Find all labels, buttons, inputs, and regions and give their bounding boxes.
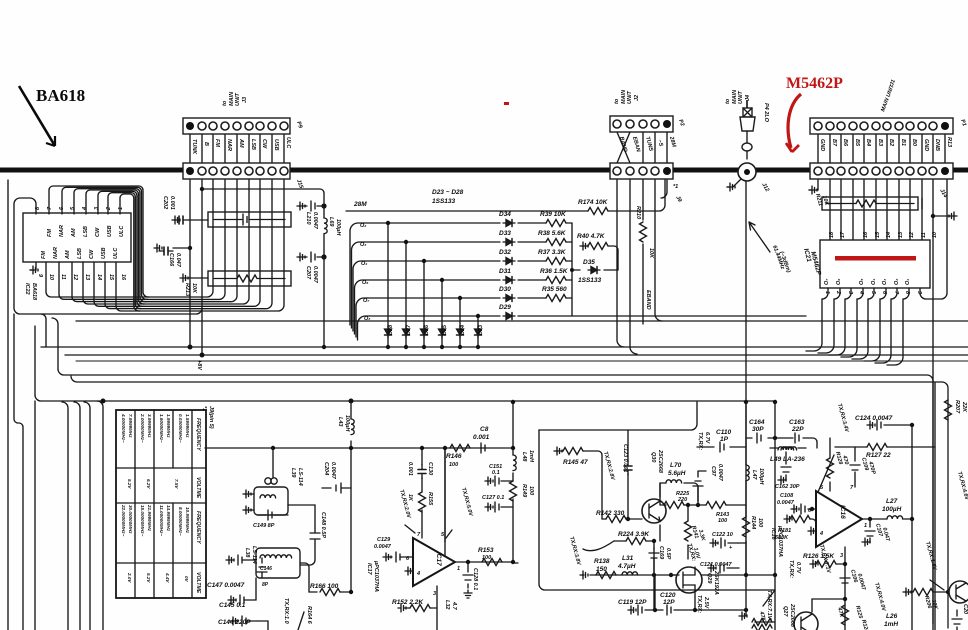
- connector P4 2LO plug: [746, 100, 748, 108]
- svg-text:FREQUENCY: FREQUENCY: [195, 511, 201, 544]
- svg-text:1: 1: [118, 207, 124, 210]
- wire pin8 left loop: [14, 180, 202, 314]
- svg-text:P4 2LO: P4 2LO: [763, 103, 769, 123]
- svg-text:R164 6: R164 6: [306, 606, 312, 625]
- svg-text:1: 1: [864, 523, 867, 529]
- svg-text:R224 3.9K: R224 3.9K: [618, 531, 650, 538]
- svg-text:0.03000MHz~: 0.03000MHz~: [178, 414, 183, 443]
- svg-text:AM: AM: [238, 138, 244, 148]
- wire BAND down: [617, 180, 624, 347]
- svg-text:L39: L39: [290, 468, 296, 478]
- svg-text:*1: *1: [673, 184, 678, 190]
- svg-text:B6: B6: [842, 139, 848, 147]
- wire row O2: [350, 223, 572, 325]
- svg-text:3: 3: [433, 591, 436, 597]
- capacitor C127 0.1: [487, 506, 513, 508]
- svg-text:10K: 10K: [648, 248, 654, 259]
- capacitor L210 0.0047: [321, 203, 326, 208]
- svg-text:B1: B1: [900, 139, 906, 146]
- filter box with resistor R214: [208, 271, 291, 286]
- svg-text:R155: R155: [427, 492, 433, 506]
- svg-text:L38: L38: [244, 548, 250, 558]
- svg-text:D28: D28: [388, 324, 394, 335]
- capacitor C20x bottom right: [956, 610, 958, 630]
- wire TUNS down: [642, 180, 644, 215]
- svg-text:0.0047: 0.0047: [374, 544, 392, 550]
- svg-text:EBAND: EBAND: [645, 290, 651, 310]
- svg-text:6.2V: 6.2V: [146, 479, 151, 489]
- svg-text:+8V: +8V: [196, 360, 202, 371]
- wire y438 line: [746, 438, 817, 448]
- svg-text:NAR: NAR: [59, 225, 65, 237]
- capacitor C119 12P: [630, 609, 655, 611]
- svg-text:22P: 22P: [791, 426, 804, 433]
- wire bottom stub pin14: [94, 262, 143, 306]
- inductor L47 100uH: [745, 447, 747, 465]
- svg-text:J2: J2: [634, 95, 640, 101]
- svg-text:2.00000MHz~: 2.00000MHz~: [140, 413, 145, 443]
- P2 pin labels: [618, 135, 677, 154]
- capacitor C149 8P: [258, 514, 288, 516]
- inductor L70 5.6uH + R225 220: [660, 483, 698, 505]
- resistor R224 3.9K: [614, 540, 626, 542]
- resistor R181 680K: [786, 518, 790, 520]
- wire TUNK column: [189, 180, 191, 348]
- inductor L43: [350, 401, 352, 592]
- resistor R144 100 vertical: [743, 517, 750, 537]
- wire pin9 to J14 loop: [920, 180, 947, 299]
- capacitor C110 1P: [697, 446, 746, 448]
- capacitor C169 0.5P: [653, 548, 655, 575]
- svg-text:B0: B0: [911, 139, 917, 146]
- wire bottom stub pin10: [46, 262, 149, 297]
- svg-text:LSB: LSB: [77, 248, 83, 259]
- svg-text:2.5V: 2.5V: [703, 596, 709, 610]
- svg-text:16: 16: [863, 231, 869, 238]
- wire down: [323, 257, 325, 347]
- svg-text:0.0047: 0.0047: [330, 462, 336, 480]
- svg-text:FM: FM: [47, 229, 53, 237]
- svg-text:L47: L47: [751, 470, 757, 480]
- wire bus net pin5: [74, 180, 237, 302]
- svg-text:VOLTME: VOLTME: [195, 477, 201, 499]
- ground pin9: [30, 262, 36, 270]
- svg-text:D33: D33: [499, 230, 511, 237]
- svg-text:8P: 8P: [262, 582, 269, 588]
- svg-text:C144 220P: C144 220P: [218, 619, 251, 626]
- wire matrix right bus: [571, 223, 573, 316]
- svg-text:Q27: Q27: [782, 606, 788, 617]
- svg-text:B3: B3: [877, 139, 883, 146]
- wire output pin1 + L27: [862, 518, 887, 520]
- svg-text:30P: 30P: [752, 426, 764, 433]
- svg-text:100µH: 100µH: [344, 415, 350, 432]
- wire feed y188 from B column: [202, 189, 324, 203]
- svg-text:5.2V: 5.2V: [127, 479, 132, 489]
- connector P9 upper box: [183, 118, 290, 134]
- wire IC21 output bus curving left: [806, 180, 947, 365]
- capacitor C122 10: [712, 542, 738, 544]
- wire pin5 column: [444, 448, 446, 556]
- diode D32: [503, 258, 515, 265]
- svg-text:R127 22: R127 22: [866, 452, 891, 459]
- capacitor C123 0.001: [627, 430, 629, 519]
- svg-text:R13: R13: [946, 137, 952, 147]
- svg-text:100: 100: [449, 462, 458, 468]
- capacitor C109 470P: [854, 447, 856, 487]
- svg-text:4.7µH: 4.7µH: [617, 563, 636, 570]
- transistor Q27 2SC2668: [794, 612, 818, 630]
- connector P1 upper box: [810, 118, 953, 134]
- svg-text:R146: R146: [446, 453, 462, 460]
- svg-text:O₆: O₆: [836, 278, 842, 285]
- svg-text:100µH: 100µH: [882, 506, 902, 513]
- svg-text:UNIT: UNIT: [235, 93, 241, 106]
- svg-text:15.00000MHz~: 15.00000MHz~: [140, 505, 145, 537]
- resistor R127 22: [835, 446, 867, 448]
- svg-text:0.0047: 0.0047: [777, 500, 795, 506]
- table frame: [116, 410, 206, 598]
- IC21 pin numbers above: [829, 231, 938, 238]
- IC21 box: [820, 240, 930, 288]
- svg-text:O₅: O₅: [859, 278, 865, 285]
- svg-text:15: 15: [875, 231, 881, 238]
- junction on R211 right: [931, 214, 935, 218]
- svg-text:FM: FM: [214, 139, 220, 147]
- svg-text:680K: 680K: [775, 535, 789, 541]
- svg-text:1.60000MHz~: 1.60000MHz~: [159, 414, 164, 443]
- svg-text:16: 16: [120, 274, 126, 281]
- svg-text:C119 12P: C119 12P: [618, 599, 647, 606]
- svg-text:C120: C120: [660, 592, 676, 599]
- svg-text:ULC: ULC: [113, 247, 119, 259]
- svg-text:14: 14: [96, 274, 102, 280]
- svg-text:to: to: [614, 98, 620, 104]
- wire bus net pin6: [62, 180, 225, 299]
- svg-text:UNIT: UNIT: [627, 91, 633, 104]
- capacitor C202: [188, 219, 208, 221]
- svg-text:LS-114: LS-114: [251, 546, 257, 564]
- svg-text:VOLTME: VOLTME: [195, 572, 201, 594]
- svg-text:11: 11: [60, 274, 66, 280]
- capacitor C146 8P: [261, 558, 263, 578]
- svg-text:IC17: IC17: [366, 563, 372, 576]
- annotation red arrow: [788, 94, 801, 148]
- svg-text:O₃: O₃: [882, 279, 888, 285]
- capacitor C121 0.0047: [710, 567, 739, 569]
- svg-text:D24: D24: [460, 325, 466, 335]
- svg-text:C130: C130: [427, 462, 433, 475]
- svg-text:R149: R149: [521, 484, 527, 498]
- svg-text:UNIT: UNIT: [738, 91, 744, 104]
- svg-text:10K: 10K: [191, 283, 197, 294]
- svg-text:0V: 0V: [184, 576, 189, 583]
- svg-text:R142 330: R142 330: [596, 510, 625, 517]
- wire bus line y382: [71, 376, 948, 628]
- svg-text:D27: D27: [406, 324, 412, 335]
- inductor L69 100uH: [323, 206, 325, 218]
- svg-text:TX,RX:: TX,RX:: [788, 560, 794, 578]
- resistor R143 100: [698, 490, 706, 505]
- red mark: [504, 102, 509, 105]
- resistor R152 2.2K: [430, 586, 437, 608]
- capacitor C106 0.0047: [840, 578, 850, 583]
- capacitor C207 0.0047: [321, 254, 326, 259]
- svg-text:28M: 28M: [353, 201, 367, 208]
- resistor R128 470 vertical: [829, 438, 831, 458]
- svg-text:D23: D23: [478, 325, 484, 335]
- svg-text:R213: R213: [184, 283, 190, 296]
- wire P9 pin drops: [190, 134, 284, 164]
- svg-text:D29: D29: [499, 304, 511, 311]
- svg-text:D26: D26: [424, 324, 430, 335]
- svg-text:L43: L43: [337, 417, 343, 426]
- svg-text:1: 1: [824, 291, 830, 294]
- svg-text:5.6µH: 5.6µH: [668, 470, 686, 477]
- wire mixer line y575: [590, 574, 676, 576]
- svg-text:D35: D35: [583, 259, 595, 266]
- svg-text:BA618: BA618: [36, 86, 85, 105]
- capacitor C8 0.001: [481, 443, 485, 453]
- capacitor C107 0.047: [866, 519, 870, 542]
- diode D29: [503, 313, 515, 320]
- P9 pin labels: [191, 137, 291, 155]
- resistor R207 22K vertical: [945, 400, 952, 420]
- svg-text:C166: C166: [168, 253, 174, 267]
- connector J15 lower box: [183, 163, 290, 179]
- svg-text:J4: J4: [745, 95, 751, 101]
- svg-text:R144: R144: [750, 516, 756, 529]
- wire pin3 down: [844, 547, 846, 630]
- svg-text:30.00000MHz: 30.00000MHz: [128, 505, 133, 534]
- capacitor C97 0.0047: [698, 471, 706, 490]
- svg-text:IC17: IC17: [435, 552, 442, 566]
- svg-text:D30: D30: [499, 286, 511, 293]
- capacitor C163 22P: [795, 433, 799, 443]
- svg-text:100µH: 100µH: [335, 219, 341, 236]
- svg-text:2SC2668: 2SC2668: [789, 603, 795, 628]
- svg-text:0.0047: 0.0047: [312, 212, 318, 230]
- svg-text:11: 11: [921, 232, 927, 238]
- wire P2 pin drops (BAND/EBAN cross): [617, 132, 667, 163]
- svg-text:L210: L210: [305, 212, 311, 225]
- svg-text:1: 1: [457, 566, 460, 572]
- capacitor C108 0.0047: [793, 508, 816, 510]
- wire column B down: [201, 308, 203, 355]
- ground pin4: [810, 530, 816, 532]
- resistor R146 100: [450, 445, 470, 452]
- svg-text:0.047: 0.047: [175, 253, 181, 268]
- wire left border: [7, 180, 9, 630]
- svg-text:B4: B4: [865, 139, 871, 146]
- svg-text:USB: USB: [101, 247, 107, 259]
- wire bus line y355: [65, 354, 968, 356]
- IC21 bottom pin numbers: [824, 290, 922, 295]
- svg-text:R138: R138: [594, 558, 610, 565]
- svg-text:100: 100: [757, 518, 763, 527]
- svg-text:R126 1.5K: R126 1.5K: [803, 553, 835, 560]
- svg-text:C163: C163: [789, 419, 805, 426]
- P1 pin labels: [819, 137, 952, 151]
- svg-text:C204: C204: [323, 462, 329, 475]
- coil L39 LS-114: [272, 448, 274, 477]
- IC22 top pin names: [47, 225, 125, 238]
- svg-text:AM: AM: [65, 250, 71, 260]
- vertical diodes D28..D23: [385, 221, 482, 349]
- svg-text:IC22: IC22: [24, 283, 30, 295]
- svg-text:C20: C20: [962, 604, 968, 614]
- svg-text:R210: R210: [635, 206, 641, 219]
- wire bus net pin7: [49, 180, 213, 297]
- capacitor C120 12P: [655, 609, 695, 611]
- svg-text:to: to: [725, 98, 731, 104]
- svg-text:4: 4: [819, 531, 823, 537]
- svg-text:7.5V: 7.5V: [174, 479, 179, 489]
- svg-text:LS-114: LS-114: [297, 468, 303, 486]
- svg-text:B2: B2: [888, 139, 894, 146]
- svg-text:C145 0.1: C145 0.1: [219, 602, 246, 609]
- diode D30: [503, 295, 515, 302]
- diode D34: [503, 220, 515, 227]
- svg-text:4.7: 4.7: [451, 601, 457, 611]
- wire row O7: [356, 298, 572, 337]
- svg-text:R38 5.6K: R38 5.6K: [538, 230, 567, 237]
- svg-text:R174 10K: R174 10K: [578, 199, 609, 206]
- svg-text:7.9999MHz: 7.9999MHz: [128, 414, 133, 438]
- svg-text:3: 3: [94, 207, 100, 210]
- wire bottom stub pin15: [105, 262, 141, 309]
- wire GND pin: [809, 180, 818, 190]
- svg-text:USB: USB: [107, 225, 113, 237]
- svg-text:14.9999MHz: 14.9999MHz: [166, 505, 171, 532]
- svg-text:2SC2668: 2SC2668: [657, 449, 663, 474]
- svg-text:C207: C207: [305, 266, 311, 280]
- svg-text:µPC1037HA: µPC1037HA: [373, 560, 379, 592]
- annotation arrow to BA618: [19, 86, 55, 146]
- resistor R213 to filter2: [184, 277, 208, 279]
- svg-text:O₄: O₄: [361, 261, 367, 267]
- capacitor C145 0.1: [230, 599, 256, 601]
- svg-text:4: 4: [82, 207, 88, 211]
- svg-text:C97: C97: [710, 466, 716, 477]
- svg-text:O₃: O₃: [360, 242, 366, 248]
- wire matrix top border with R174: [346, 180, 665, 211]
- svg-text:J9(pin 5): J9(pin 5): [208, 406, 214, 429]
- svg-text:C127 0.1: C127 0.1: [482, 495, 504, 501]
- svg-text:150: 150: [596, 566, 607, 573]
- capacitor C164 30P: [757, 433, 761, 443]
- wire x935 vertical: [934, 383, 936, 630]
- svg-text:6.7V: 6.7V: [704, 432, 710, 445]
- svg-text:LSB: LSB: [250, 139, 256, 150]
- svg-text:15: 15: [108, 274, 114, 281]
- svg-text:C162 30P: C162 30P: [775, 484, 800, 490]
- svg-text:10: 10: [48, 274, 54, 280]
- wire bus net pin4: [86, 180, 249, 304]
- op-amp IC16: [816, 491, 862, 547]
- inductor L31 4.7uH: [622, 572, 638, 575]
- svg-text:M5462P: M5462P: [786, 75, 843, 92]
- svg-text:12P: 12P: [663, 599, 675, 606]
- resistor R126 1.5K: [812, 563, 816, 565]
- resistor R211 box: [822, 197, 918, 210]
- resistor R37: [546, 258, 566, 265]
- resistor R38: [546, 239, 566, 246]
- svg-text:10: 10: [932, 232, 938, 238]
- connector J9 lower box: [610, 163, 673, 179]
- svg-text:8.00000MHz~: 8.00000MHz~: [178, 507, 183, 536]
- svg-text:B7: B7: [831, 139, 837, 147]
- capacitor C151 0.1: [487, 480, 513, 482]
- svg-text:L70: L70: [670, 462, 682, 469]
- resistor R36: [546, 277, 566, 284]
- wire -S / EBAND down: [655, 180, 662, 321]
- svg-text:13: 13: [84, 274, 90, 280]
- svg-text:0.5P: 0.5P: [665, 548, 671, 560]
- svg-text:R40 4.7K: R40 4.7K: [577, 233, 606, 240]
- resistor R40 4.7K: [582, 246, 618, 270]
- capacitor C147 0.0047: [228, 559, 256, 561]
- svg-text:1P: 1P: [720, 436, 729, 443]
- svg-text:R36 1.5K: R36 1.5K: [540, 268, 569, 275]
- svg-text:0.001: 0.001: [407, 462, 413, 476]
- wire 28M down: [661, 180, 667, 198]
- svg-text:R35 560: R35 560: [542, 286, 567, 293]
- svg-text:GND: GND: [923, 139, 929, 151]
- svg-text:0.1: 0.1: [492, 470, 500, 476]
- svg-text:LSB: LSB: [83, 226, 89, 237]
- wire bus line y361: [76, 360, 968, 362]
- svg-text:L26: L26: [886, 613, 898, 620]
- resistor R210 vertical: [642, 215, 644, 220]
- svg-text:0.0047: 0.0047: [717, 464, 723, 482]
- svg-text:TX,RX:1.0: TX,RX:1.0: [283, 598, 289, 624]
- connector J12: [738, 163, 756, 181]
- capacitor C204: [322, 487, 351, 489]
- svg-text:B: B: [203, 142, 209, 146]
- wire bus net pin1: [120, 180, 284, 311]
- svg-text:C148 0.5P: C148 0.5P: [320, 512, 326, 538]
- svg-text:C129: C129: [377, 537, 391, 543]
- filter box with capacitor: [208, 212, 291, 227]
- wire row O8: [358, 316, 807, 340]
- ground at J12 left: [727, 179, 741, 187]
- svg-text:B5: B5: [854, 139, 860, 147]
- svg-text:CW: CW: [261, 139, 267, 149]
- svg-text:O₆: O₆: [362, 280, 369, 286]
- svg-text:O₄: O₄: [871, 279, 877, 285]
- wire J12 down: [745, 181, 747, 610]
- wire bus line y401: [35, 395, 775, 401]
- svg-text:L32: L32: [444, 600, 450, 609]
- svg-text:3.9999MHz: 3.9999MHz: [147, 414, 152, 438]
- svg-text:O₁: O₁: [905, 279, 911, 285]
- svg-text:D32: D32: [499, 249, 511, 256]
- transistor Q30 2SC2668: [642, 499, 666, 523]
- svg-text:100: 100: [718, 518, 727, 524]
- svg-text:3: 3: [840, 553, 843, 559]
- wire O8 feed line y321: [76, 320, 968, 322]
- svg-text:21.9999MHz: 21.9999MHz: [147, 504, 152, 532]
- inductor L49 LA-236: [770, 447, 806, 449]
- svg-text:D23 ~ D28: D23 ~ D28: [432, 189, 464, 196]
- svg-text:10.9999MHz: 10.9999MHz: [185, 507, 190, 534]
- svg-text:C8: C8: [480, 426, 489, 433]
- coil L38 LS-114: [256, 548, 300, 578]
- bus hairpins around IC22 (top pins over right side down to P9 columns): [14, 180, 284, 355]
- svg-text:0.001: 0.001: [473, 434, 490, 441]
- connector P2 upper box: [610, 116, 673, 132]
